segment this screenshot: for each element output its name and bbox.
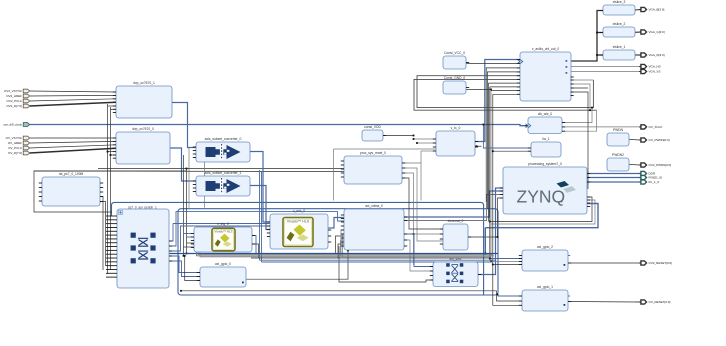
wire gpio1 dark seg bbox=[181, 291, 522, 301]
svg-text:VGA_B[3:0]: VGA_B[3:0] bbox=[649, 8, 665, 12]
pins v_trig left bbox=[191, 234, 194, 248]
wire prs clk in bbox=[98, 168, 344, 170]
wire hv6 bbox=[493, 94, 522, 305]
pins gpio1 left bbox=[519, 296, 522, 305]
pins vdma left bbox=[341, 215, 344, 246]
pin conv0 out bbox=[250, 151, 253, 153]
block Const_VCC_0 bbox=[443, 51, 466, 69]
wire clkwiz out3 bbox=[562, 110, 597, 131]
wire vout loop b stub bbox=[571, 84, 591, 110]
port OV_PWDN[0:0] bbox=[639, 138, 670, 142]
port VGA_VS bbox=[639, 69, 660, 73]
pins ila left bbox=[528, 148, 531, 151]
wire hv5 bbox=[490, 89, 492, 261]
pins rst left bbox=[39, 183, 42, 201]
svg-text:proc_sys_reset_0: proc_sys_reset_0 bbox=[360, 151, 386, 155]
wire prs out4 bbox=[402, 178, 443, 229]
wire dvp0 to conv1 bbox=[170, 148, 196, 181]
junction vtcout bbox=[476, 145, 478, 147]
wire ila clk branch bbox=[483, 125, 531, 149]
icon periph expand bbox=[119, 211, 123, 215]
junction ccat bbox=[413, 233, 415, 235]
port OV2_PWDN[0:0] bbox=[639, 163, 671, 167]
wire gp loop c drop bbox=[484, 228, 486, 254]
wire vtc in c bbox=[421, 150, 436, 152]
wire slice2 out bbox=[635, 31, 641, 33]
block PWDN2 bbox=[607, 153, 629, 171]
svg-text:OV_PCLK: OV_PCLK bbox=[8, 146, 22, 150]
block Const_GND_0 bbox=[443, 76, 466, 94]
block rst_ps7_0_100M bbox=[42, 172, 100, 206]
wire vid data bus bbox=[571, 11, 604, 62]
junction x186 bbox=[186, 253, 188, 255]
svg-text:OV2_HREF: OV2_HREF bbox=[6, 94, 22, 98]
wire clkwiz out1 bbox=[562, 108, 592, 123]
block xlconcat_0 bbox=[443, 219, 468, 250]
wire conv vert 204 bbox=[204, 158, 206, 208]
svg-text:axi_smc: axi_smc bbox=[449, 257, 461, 261]
wire trunk258 bbox=[251, 257, 491, 259]
port VGA_B[3:0] bbox=[639, 7, 664, 11]
svg-text:v_axi4s_vid_out_0: v_axi4s_vid_out_0 bbox=[532, 47, 559, 51]
wire hv2 bbox=[487, 72, 520, 209]
wire OV_PWDN net bbox=[629, 139, 641, 142]
wire hv5t bbox=[491, 90, 520, 92]
svg-text:Vivado™ HLS: Vivado™ HLS bbox=[287, 219, 310, 223]
pin vcc out bbox=[466, 62, 469, 64]
wire rst aresetn vert a bbox=[100, 197, 103, 271]
svg-text:axi_gpio_1: axi_gpio_1 bbox=[537, 285, 553, 289]
wire dvp1 rst stub bbox=[111, 108, 117, 110]
wire vert x183 bbox=[183, 155, 185, 256]
wire vdma in d bbox=[341, 230, 344, 255]
wire rst aresetn vert b bbox=[100, 202, 106, 267]
block const_VDD bbox=[362, 125, 383, 141]
wire IIC net bbox=[587, 181, 641, 183]
wire prs out2 bbox=[402, 168, 443, 241]
junction gp1b bbox=[497, 294, 499, 296]
block v_axi4s_vid_out_0 bbox=[520, 47, 571, 101]
pin dvp_ov7670_1 out bbox=[172, 102, 175, 104]
wire vdma in a bbox=[341, 240, 345, 256]
port OV_HREF bbox=[8, 141, 30, 145]
svg-text:axi_gpio_2: axi_gpio_2 bbox=[537, 245, 553, 249]
svg-text:OV_D[7:0]: OV_D[7:0] bbox=[8, 151, 22, 155]
junction gpio0out bbox=[347, 250, 349, 252]
junction clk2 bbox=[589, 109, 591, 111]
wire vdma maxi b bbox=[404, 195, 503, 221]
junction ila branch bbox=[483, 124, 485, 126]
hierarchy net s00 loop bbox=[112, 202, 484, 294]
wire vdma maxi a bbox=[404, 191, 503, 217]
wire vdma in e bbox=[343, 234, 345, 257]
wire DDR net bbox=[587, 173, 641, 175]
wire vdma smc a bbox=[404, 234, 433, 267]
svg-text:OV_RESET[0:0]: OV_RESET[0:0] bbox=[649, 300, 671, 304]
wire trunk256 bbox=[197, 252, 495, 256]
port OV_VSYNC bbox=[6, 136, 30, 140]
port OV_D[7:0] bbox=[8, 151, 30, 155]
svg-text:axi_vdma_0: axi_vdma_0 bbox=[365, 204, 383, 208]
wire slice1 out bbox=[635, 54, 641, 56]
port OV2_HREF bbox=[6, 94, 29, 98]
port OV_XCLK bbox=[639, 125, 662, 129]
wire smc out bbox=[478, 188, 503, 275]
junction a bbox=[107, 151, 109, 153]
pins periph left bbox=[106, 216, 117, 277]
wire hv4 bbox=[489, 87, 491, 259]
svg-text:v_tc_0: v_tc_0 bbox=[451, 126, 461, 130]
svg-text:v_trig_0: v_trig_0 bbox=[217, 222, 229, 226]
junction ila b bbox=[492, 150, 494, 152]
junction gpio0c bbox=[184, 255, 186, 257]
svg-text:axi_gpio_0: axi_gpio_0 bbox=[215, 262, 231, 266]
wire OV_HREF net bbox=[30, 141, 116, 143]
wire vtc vert 421 bbox=[420, 151, 422, 163]
junction gndj bbox=[490, 89, 492, 91]
icon v_axi4s out dots bbox=[566, 60, 568, 74]
pins v_trig right bbox=[252, 236, 255, 245]
svg-text:OV2_PWDN[0:0]: OV2_PWDN[0:0] bbox=[649, 163, 672, 167]
wire blue vert pair b bbox=[261, 172, 263, 262]
wire vout loop a bbox=[417, 76, 593, 108]
pins conv0 left bbox=[193, 147, 196, 158]
block axi_gpio_2 bbox=[522, 245, 568, 271]
svg-text:VGA_HS: VGA_HS bbox=[649, 65, 661, 69]
wire periph m01 vdma lite bbox=[169, 212, 344, 246]
svg-text:PWDN2: PWDN2 bbox=[612, 153, 624, 157]
pin smc out bbox=[478, 274, 481, 276]
wire vtrig out a bbox=[252, 236, 256, 254]
pin gpio1 dot bbox=[564, 304, 566, 306]
wire slice3 out bbox=[635, 9, 641, 12]
wire conv0 to vmix bbox=[250, 152, 270, 223]
port sys_diff_clock bbox=[3, 123, 29, 127]
wire vtrig saxi b bbox=[187, 236, 195, 238]
junction clk1 bbox=[591, 107, 593, 109]
wire trunk260 bbox=[260, 259, 496, 261]
wire concat in c bbox=[414, 233, 444, 235]
svg-text:OV2_PCLK: OV2_PCLK bbox=[6, 99, 22, 103]
wire OV_D bus net bbox=[30, 148, 116, 153]
pins rst right bbox=[100, 183, 103, 202]
pin gpio2 intf stub bbox=[568, 255, 570, 257]
icon subset_converter_1 bbox=[206, 178, 241, 194]
wire OV_VSYNC net bbox=[30, 137, 116, 139]
pin slice1 bbox=[600, 54, 603, 56]
pin dvp_ov7670_0 out bbox=[170, 147, 173, 149]
junction vtc1 bbox=[413, 138, 415, 140]
pins gpio2 left bbox=[519, 256, 522, 265]
svg-text:PWDN: PWDN bbox=[613, 128, 624, 132]
wire gpio1 blue bbox=[498, 295, 522, 296]
pin gpio2 dot bbox=[564, 264, 566, 266]
junction g2c bbox=[492, 264, 494, 266]
wire prs out3 bbox=[402, 173, 414, 265]
block axi_gpio_0 bbox=[200, 262, 246, 287]
wire vtc out stub bbox=[475, 145, 482, 147]
wire hv6t bbox=[493, 93, 520, 95]
port OV_RESET[0:0] bbox=[639, 300, 670, 304]
pins vtc right bbox=[475, 142, 478, 148]
svg-text:OV_VSYNC: OV_VSYNC bbox=[6, 136, 23, 140]
block proc_sys_reset_0 bbox=[344, 151, 402, 184]
svg-text:axis_subset_converter_1: axis_subset_converter_1 bbox=[205, 171, 242, 175]
wire vdma in b bbox=[338, 244, 344, 258]
wire gp loop c bbox=[485, 204, 598, 228]
block dvp_ov7670_1 bbox=[116, 81, 172, 118]
wire periph to vmix c bbox=[173, 223, 270, 225]
wire concat out bbox=[468, 198, 503, 237]
wire trunk262 bbox=[262, 261, 494, 263]
svg-text:FIXED_IO: FIXED_IO bbox=[649, 176, 663, 180]
wire gp loop b bbox=[491, 200, 595, 224]
svg-text:OV_PWDN[0:0]: OV_PWDN[0:0] bbox=[649, 138, 670, 142]
pin clkwiz out bbox=[562, 123, 565, 132]
icon axi_smc bbox=[446, 263, 463, 283]
wire VGA_HS net bbox=[571, 66, 642, 68]
wire dvp0 rst stub bbox=[111, 154, 117, 156]
block ila_1 bbox=[531, 137, 561, 157]
logo ZYNQ bbox=[517, 181, 577, 207]
block xlslice_2 bbox=[603, 22, 635, 37]
icon clkwiz intf pin bbox=[526, 124, 531, 128]
block axi_vdma_0 bbox=[344, 204, 404, 250]
wire gpio2 c bbox=[493, 264, 522, 266]
wire const_VDD net bbox=[383, 135, 414, 137]
pins vdma right bbox=[404, 217, 407, 246]
pin conv1 out bbox=[250, 185, 253, 187]
junction gp bbox=[489, 221, 491, 223]
junction g1 bbox=[180, 290, 182, 292]
port FIXED_IO bbox=[639, 175, 663, 179]
junction vtc2 bbox=[416, 142, 418, 144]
port VGA_R[3:0] bbox=[639, 53, 665, 57]
svg-text:v_mix_0: v_mix_0 bbox=[293, 209, 305, 213]
wire OV_XCLK net bbox=[562, 126, 641, 128]
block dvp_ov7670_0 bbox=[116, 127, 170, 164]
svg-text:dvp_ov7670_0: dvp_ov7670_0 bbox=[132, 127, 154, 131]
wire gpio0 out bbox=[246, 251, 348, 280]
wire slice1 feed bbox=[597, 54, 603, 56]
port DDR bbox=[639, 171, 656, 175]
pins prs right bbox=[402, 163, 405, 178]
svg-text:DDR: DDR bbox=[649, 172, 656, 176]
junction prs bbox=[186, 168, 188, 170]
pin gpio2 out bbox=[568, 262, 571, 264]
icon v_trig hls badge bbox=[212, 228, 235, 251]
junction s1 bbox=[596, 54, 598, 56]
wire vmix to vdma bbox=[328, 218, 344, 229]
icon v_axi4s intf pin bbox=[518, 60, 523, 64]
block xlslice_1 bbox=[603, 45, 635, 60]
wire slice2 feed bbox=[597, 32, 603, 34]
port OV2_PCLK bbox=[6, 99, 29, 103]
wire dvp1 to conv0 bbox=[172, 103, 196, 148]
pins clkwiz left bbox=[525, 125, 528, 127]
block PWDN bbox=[607, 128, 629, 146]
wire vdma smc b bbox=[404, 240, 433, 271]
pins dvp_ov7670_0 left bbox=[113, 138, 116, 158]
junction s2 bbox=[596, 32, 598, 34]
svg-text:IIC_1_0: IIC_1_0 bbox=[649, 180, 660, 184]
pins zynq left bbox=[500, 188, 503, 198]
svg-text:OV2_VSYNC: OV2_VSYNC bbox=[4, 89, 23, 93]
pin concat out bbox=[468, 236, 471, 238]
junction x183 bbox=[183, 255, 185, 257]
svg-text:VGA_VS: VGA_VS bbox=[649, 70, 661, 74]
wire OV2_RESET net bbox=[568, 262, 641, 264]
svg-text:ila_1: ila_1 bbox=[543, 137, 550, 141]
wire gnd net bbox=[466, 88, 491, 90]
block axis_subset_converter_0 bbox=[196, 137, 250, 162]
wire conv1 to vmix bbox=[250, 186, 270, 230]
wire dvp0 clk stub bbox=[108, 151, 117, 153]
wire smc in c bbox=[339, 246, 433, 282]
wire gpio2 b bbox=[491, 261, 522, 263]
wire reset loop bbox=[34, 171, 187, 212]
wire vout stub1 bbox=[571, 87, 589, 89]
wire periph to gpio0 b bbox=[169, 261, 200, 277]
svg-text:VGA_R[3:0]: VGA_R[3:0] bbox=[649, 53, 665, 57]
wire vert x189 bbox=[188, 148, 190, 208]
svg-text:const_VDD: const_VDD bbox=[364, 125, 381, 129]
svg-text:xlslice_2: xlslice_2 bbox=[613, 22, 626, 26]
pins v_mix right bbox=[328, 230, 331, 242]
svg-text:OV2_D[7:0]: OV2_D[7:0] bbox=[6, 104, 22, 108]
wire vtrig out b bbox=[252, 244, 259, 258]
wire prs resetin bbox=[34, 170, 344, 173]
wire OV2_HREF net bbox=[30, 94, 116, 97]
junction vdd bbox=[413, 135, 415, 137]
wire trunk253 bbox=[169, 253, 498, 255]
wire OV_RESET net bbox=[568, 301, 641, 304]
port OV_PCLK bbox=[8, 146, 29, 150]
wire ila b bbox=[493, 150, 531, 152]
svg-text:OV2_RESET[0:0]: OV2_RESET[0:0] bbox=[649, 261, 673, 265]
wire vtrig saxi a bbox=[184, 233, 195, 235]
wire periph to vmix b bbox=[169, 226, 270, 251]
pin gpio1 out bbox=[568, 301, 571, 303]
wire gpio2 a bbox=[490, 258, 522, 260]
wire vtc in b bbox=[417, 142, 436, 144]
block axis_subset_converter_1 bbox=[196, 171, 250, 196]
pins v_mix left bbox=[267, 222, 270, 237]
wire OV2_VSYNC net bbox=[30, 91, 116, 92]
port OV2_D[7:0] bbox=[6, 104, 29, 108]
wire vout stub2 bbox=[571, 92, 589, 189]
port IIC_1_0 bbox=[639, 180, 659, 184]
block clk_wiz_0 bbox=[528, 112, 562, 133]
svg-text:xlconcat_0: xlconcat_0 bbox=[448, 219, 464, 223]
wire vert x186 stub bbox=[187, 242, 195, 244]
junction gpdrop bbox=[484, 253, 486, 255]
wire sys_diff_clock net bbox=[30, 125, 528, 126]
svg-text:Const_GND_0: Const_GND_0 bbox=[444, 76, 466, 80]
icon v_mix hls badge bbox=[283, 218, 313, 247]
wire OV2_D bus net bbox=[30, 102, 116, 106]
pins gpio0 left bbox=[197, 273, 200, 281]
pins periph right bbox=[169, 241, 172, 261]
wire gpio0 in c bbox=[185, 256, 200, 281]
port OV2_RESET[0:0] bbox=[639, 261, 672, 265]
port VGA_G[3:0] bbox=[639, 30, 665, 34]
wire OV2_PWDN net bbox=[629, 164, 641, 167]
pin const_VDD out bbox=[383, 135, 386, 137]
pins dvp_ov7670_1 left bbox=[113, 92, 116, 113]
svg-text:processing_system7_0: processing_system7_0 bbox=[528, 162, 562, 166]
block axi_gpio_1 bbox=[522, 285, 568, 311]
wire dvp1 clk stub bbox=[108, 105, 117, 107]
pins prs left bbox=[341, 161, 344, 177]
junction b bbox=[110, 154, 112, 156]
svg-text:rst_ps7_0_100M: rst_ps7_0_100M bbox=[59, 172, 84, 176]
block axi interconnect inner bbox=[117, 209, 169, 288]
wire trunk255 bbox=[198, 252, 492, 255]
pin gpio0 dot bbox=[242, 282, 244, 284]
junction g2b bbox=[490, 261, 492, 263]
pins smc left bbox=[430, 267, 433, 281]
wire periph to gpio0 a bbox=[169, 256, 200, 273]
wire vtc feed bbox=[333, 149, 335, 201]
pin gnd out bbox=[466, 87, 469, 89]
wire hv1 bbox=[486, 68, 520, 202]
wire vtc feed h bbox=[334, 148, 437, 150]
svg-text:clk_wiz_0: clk_wiz_0 bbox=[538, 112, 552, 116]
wire OV_PCLK net bbox=[30, 145, 116, 148]
wire OV2_PCLK net bbox=[30, 99, 116, 101]
pins concat left bbox=[440, 229, 443, 244]
wire hv4t bbox=[490, 86, 520, 88]
wire vtc out bbox=[475, 60, 520, 142]
block v_mix_0 bbox=[270, 209, 328, 249]
wire clk vertical a bbox=[107, 104, 109, 274]
port OV2_VSYNC bbox=[4, 89, 30, 93]
svg-text:Const_VCC_0: Const_VCC_0 bbox=[444, 51, 465, 55]
wire blue vert pair a bbox=[259, 170, 261, 260]
svg-text:VGA_G[3:0]: VGA_G[3:0] bbox=[649, 30, 665, 34]
wire VGA_VS net bbox=[571, 71, 642, 73]
block v_trig_0 bbox=[194, 222, 252, 252]
block processing_system7_0 ZYNQ bbox=[503, 162, 587, 214]
svg-text:axis_subset_converter_0: axis_subset_converter_0 bbox=[205, 137, 242, 141]
wire vdma in c bbox=[336, 236, 345, 254]
svg-text:sys_diff_clock: sys_diff_clock bbox=[3, 123, 22, 127]
pin gpio1 intf stub bbox=[568, 295, 570, 297]
junction g2a bbox=[489, 258, 491, 260]
pins v_axi4s left bbox=[517, 60, 520, 95]
svg-text:OV_XCLK: OV_XCLK bbox=[649, 125, 663, 129]
port VGA_HS bbox=[639, 64, 661, 68]
wire FIXED_IO net bbox=[587, 177, 641, 179]
svg-text:ZYNQ: ZYNQ bbox=[517, 187, 566, 207]
wire vert x186 bbox=[186, 169, 188, 254]
svg-text:Vivado™ HLS: Vivado™ HLS bbox=[214, 229, 232, 233]
wire prs out1 bbox=[402, 163, 421, 201]
wire periph to vmix a bbox=[169, 224, 173, 242]
hierarchy box inner pipeline bbox=[178, 209, 498, 295]
pins vtc left bbox=[433, 139, 436, 151]
pins zynq right bbox=[587, 174, 590, 207]
icon subset_converter_0 bbox=[206, 144, 241, 160]
wire vout loop a stub bbox=[571, 79, 594, 81]
svg-text:xlslice_3: xlslice_3 bbox=[613, 0, 626, 4]
pin slice3 bbox=[600, 10, 603, 12]
wire hv3 bbox=[489, 83, 520, 221]
wire vout loop b bbox=[414, 79, 597, 110]
svg-text:OV_HREF: OV_HREF bbox=[8, 141, 22, 145]
pins v_axi4s right bbox=[571, 77, 574, 96]
